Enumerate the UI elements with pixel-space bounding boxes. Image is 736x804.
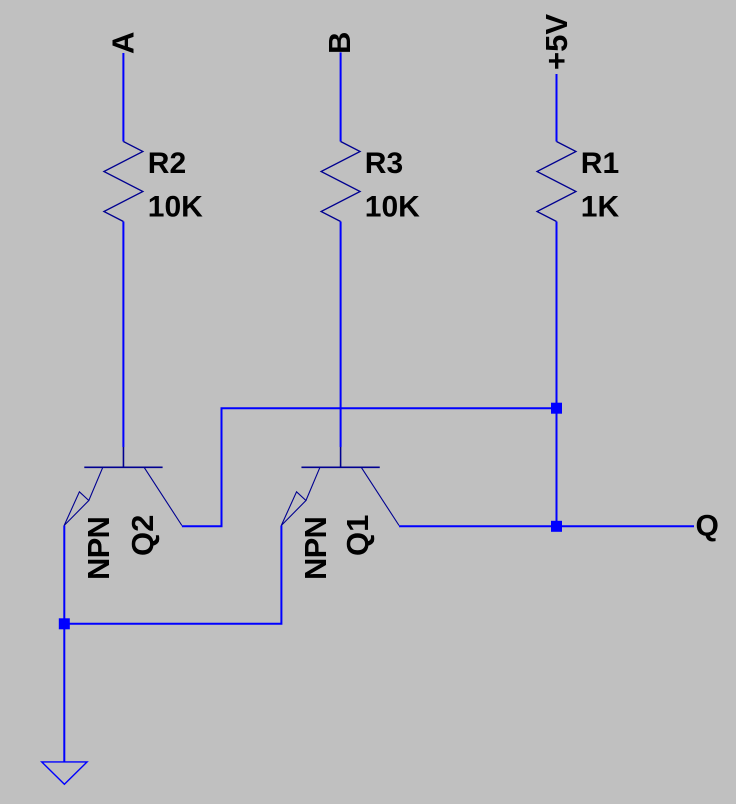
junction: node Q at R1 column	[551, 521, 562, 532]
svg-text:Q2: Q2	[125, 515, 160, 556]
wire: Q2 collector up and across to node Q column	[182, 408, 557, 526]
emitter line	[306, 467, 320, 500]
node A label	[105, 32, 140, 54]
wire: input B to resistor R3 top	[340, 52, 342, 141]
junction: Q2 collector feedback at R1 column	[551, 403, 562, 414]
wire: R3 bottom to Q1 base	[340, 222, 342, 448]
emitter line	[89, 467, 103, 500]
svg-text:Q1: Q1	[340, 515, 375, 556]
svg-text:A: A	[105, 32, 140, 54]
emitter arrow	[64, 492, 89, 526]
resistor R2	[104, 142, 203, 224]
transistor Q2	[64, 447, 182, 580]
base pin stub	[122, 447, 124, 467]
svg-text:10K: 10K	[148, 191, 203, 224]
power +5V label	[539, 14, 574, 70]
svg-text:NPN: NPN	[81, 517, 116, 580]
svg-text:R1: R1	[581, 147, 619, 180]
node B label	[322, 32, 357, 54]
output node Q label	[696, 510, 719, 543]
wire: Q2 emitter down	[63, 526, 65, 624]
wire: R2 bottom to Q2 base	[122, 222, 124, 448]
wire: Q1 emitter down and left to emitter bus	[64, 526, 281, 624]
svg-text:1K: 1K	[581, 191, 620, 224]
base bar	[84, 466, 162, 468]
collector line	[361, 467, 399, 525]
emitter arrow	[281, 492, 306, 526]
svg-text:+5V: +5V	[539, 14, 574, 70]
wire: input A to resistor R2 top	[122, 53, 124, 142]
svg-text:R2: R2	[148, 147, 186, 180]
svg-text:B: B	[322, 32, 357, 54]
wire: emitter bus to ground	[63, 624, 65, 762]
collector line	[144, 467, 182, 525]
resistor R3	[321, 142, 420, 224]
ground	[42, 762, 87, 784]
transistor Q1	[281, 447, 399, 580]
base bar	[301, 466, 379, 468]
base pin stub	[340, 447, 342, 467]
svg-text:NPN: NPN	[298, 517, 333, 580]
wire: Q1 collector to output Q	[399, 525, 694, 527]
svg-text:10K: 10K	[365, 191, 420, 224]
svg-text:R3: R3	[365, 147, 403, 180]
svg-text:Q: Q	[696, 510, 719, 543]
wire: +5V to resistor R1 top	[556, 74, 558, 142]
junction: emitter bus	[59, 618, 70, 629]
wire: R1 bottom to node Q	[556, 222, 558, 527]
resistor R1	[537, 142, 619, 224]
